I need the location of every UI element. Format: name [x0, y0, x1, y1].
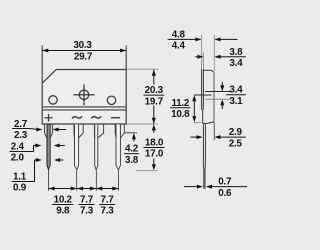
side view top chamfer — [211, 70, 214, 72]
svg-text:0.6: 0.6 — [218, 188, 232, 199]
dimension 2.7/2.3 arrows — [29, 128, 37, 131]
side view pin right edge — [204, 124, 206, 189]
svg-text:2.0: 2.0 — [11, 153, 25, 164]
pin 1 (+) outline — [47, 124, 50, 169]
extension line pin3 tip — [95, 170, 97, 190]
side view bottom edge — [203, 122, 214, 124]
svg-text:4.2: 4.2 — [125, 144, 139, 155]
dimension 11.2/10.8 — [193, 101, 195, 116]
side view right face extension up — [213, 35, 215, 71]
side view pin left edge — [202, 124, 204, 189]
svg-text:7.7: 7.7 — [101, 195, 115, 206]
svg-text:1.1: 1.1 — [13, 172, 27, 183]
svg-text:18.0: 18.0 — [145, 138, 164, 149]
dimension 2.9/2.5 arrows — [190, 136, 196, 138]
svg-text:2.5: 2.5 — [229, 138, 243, 149]
svg-text:0.9: 0.9 — [13, 183, 27, 194]
AC tilde symbol 2 — [91, 116, 101, 118]
pin 1 (+) dark lead — [47, 124, 50, 169]
extension line at lead shoulder — [125, 132, 138, 134]
hole top line in side view — [205, 91, 230, 93]
front view package body outline — [42, 70, 126, 125]
extension line at pin tips right — [136, 170, 158, 172]
svg-text:4.4: 4.4 — [172, 41, 186, 52]
svg-text:3.4: 3.4 — [229, 58, 243, 69]
svg-text:3.4: 3.4 — [229, 85, 243, 96]
dimension 18.0/17.0 arrows — [152, 124, 156, 130]
svg-text:2.9: 2.9 — [229, 127, 243, 138]
extension line bottom left of side view — [194, 122, 202, 124]
dimension 30.3/29.7 line — [42, 50, 126, 52]
svg-text:10.2: 10.2 — [54, 195, 73, 206]
right pilot hole — [107, 96, 115, 104]
svg-text:7.3: 7.3 — [101, 206, 115, 217]
svg-text:30.3: 30.3 — [73, 40, 92, 51]
svg-text:2.4: 2.4 — [11, 142, 25, 153]
svg-text:19.7: 19.7 — [145, 96, 164, 107]
svg-text:7.7: 7.7 — [80, 195, 94, 206]
extension line pin1 tip — [48, 170, 50, 190]
svg-text:7.3: 7.3 — [80, 206, 94, 217]
hole bottom line in side view — [205, 98, 231, 100]
dimension 0.7/0.6 arrows — [184, 186, 197, 188]
svg-text:17.0: 17.0 — [145, 149, 164, 160]
svg-text:3.8: 3.8 — [229, 47, 243, 58]
side view left face extension up — [201, 35, 203, 70]
hole centre line in side view — [194, 94, 212, 96]
svg-text:3.8: 3.8 — [125, 155, 139, 166]
minus terminal symbol — [111, 117, 120, 119]
svg-text:2.3: 2.3 — [14, 130, 28, 141]
dimension line lead spacing — [49, 188, 119, 190]
svg-text:10.8: 10.8 — [171, 109, 190, 120]
dimension 2.4/2.0 leader and arrows — [25, 151, 33, 153]
svg-text:29.7: 29.7 — [74, 51, 93, 62]
mounting hole crosshair — [74, 84, 95, 105]
extension line from body top right — [127, 68, 158, 70]
pin 2 (~) — [75, 124, 79, 169]
terminal strip inner line — [42, 109, 126, 111]
dimension 1.1/0.9 leader and arrows — [27, 181, 34, 183]
pin 3 (~) — [95, 124, 98, 169]
AC tilde symbol 1 — [72, 116, 82, 118]
dimension 20.3/19.7 — [153, 70, 155, 85]
plus terminal symbol — [44, 114, 52, 122]
extension line pin2 tip — [76, 170, 78, 190]
dimension 3.8/3.4 arrows — [195, 56, 197, 58]
extension line pin4 tip — [118, 170, 120, 190]
extension line from strip bottom right — [127, 123, 157, 125]
dimension 3.4/3.1 arrows — [221, 82, 223, 86]
svg-text:0.7: 0.7 — [218, 177, 232, 188]
side view right face — [213, 72, 215, 122]
left pilot hole — [49, 96, 57, 104]
svg-text:3.1: 3.1 — [229, 96, 243, 107]
svg-text:4.8: 4.8 — [172, 30, 186, 41]
side view top edge — [203, 69, 211, 71]
svg-text:11.2: 11.2 — [171, 98, 189, 109]
terminal strip top line — [42, 106, 126, 108]
extension line left of 30.3 dim — [41, 45, 43, 83]
svg-text:20.3: 20.3 — [145, 85, 164, 96]
extension line right of 30.3 dim — [125, 45, 127, 69]
extension line from body bottom corner — [213, 122, 215, 140]
side view lower left edge — [202, 111, 204, 124]
svg-text:9.8: 9.8 — [56, 206, 70, 217]
pin 4 (-) — [116, 124, 120, 169]
side view left face outer line — [202, 69, 204, 110]
side view inner face extension up — [203, 53, 205, 70]
dimension 4.2/3.8 arrow — [132, 133, 136, 139]
